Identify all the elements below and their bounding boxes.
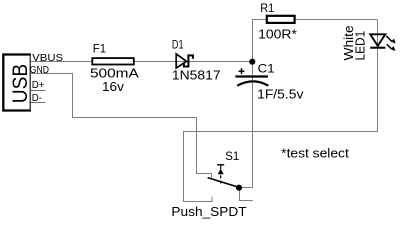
svg-text:500mA: 500mA xyxy=(90,66,139,80)
capacitor C1 curved plate xyxy=(237,81,268,85)
switch S1 plunger stem xyxy=(220,165,222,169)
capacitor C1 top plate xyxy=(235,75,268,77)
switch S1 plunger T-bar xyxy=(217,164,224,166)
svg-text:C1: C1 xyxy=(258,63,275,75)
svg-text:1F/5.5v: 1F/5.5v xyxy=(257,88,304,102)
wire GND net: stub, down, across, down to switch pole contact xyxy=(31,74,212,178)
LED1 emission arrow upper xyxy=(386,36,396,44)
svg-text:GND: GND xyxy=(30,64,50,76)
LED1 triangle xyxy=(370,34,385,46)
svg-text:Push_SPDT: Push_SPDT xyxy=(171,205,246,219)
wire VBUS rail from USB to node xyxy=(31,61,253,63)
svg-text:D1: D1 xyxy=(172,40,184,52)
wire C1 / switch vertical xyxy=(252,62,254,188)
diode D1 schottky cathode bar xyxy=(184,55,193,66)
svg-text:D-: D- xyxy=(32,92,43,104)
svg-text:S1: S1 xyxy=(225,151,239,163)
switch S1 plunger dashed link xyxy=(220,175,222,183)
capacitor C1 plus sign xyxy=(239,68,245,74)
wire lower-right throw stub xyxy=(240,190,253,201)
switch S1 throw contact dot xyxy=(236,185,242,191)
svg-text:F1: F1 xyxy=(93,44,106,56)
wire R1 top rail from node corner to LED corner xyxy=(253,20,378,62)
wire D- stub xyxy=(31,102,46,104)
wire switch throw to vertical xyxy=(239,187,253,189)
resistor R1 body xyxy=(267,16,295,23)
svg-text:16v: 16v xyxy=(102,80,125,94)
LED1 emission arrow lower xyxy=(387,44,396,51)
svg-text:*test select: *test select xyxy=(281,146,349,160)
svg-text:1N5817: 1N5817 xyxy=(172,69,221,83)
wire LED cathode drop, bottom return to lower-left throw stub xyxy=(184,20,378,202)
svg-text:USB: USB xyxy=(8,64,32,103)
svg-text:LED1: LED1 xyxy=(353,31,367,61)
switch S1 lever xyxy=(208,178,239,188)
wire D+ stub xyxy=(31,90,46,92)
node junction dot at VBUS/C1/R1 xyxy=(249,59,255,65)
fuse F1 body xyxy=(92,58,134,64)
svg-text:VBUS: VBUS xyxy=(32,52,63,64)
svg-text:100R*: 100R* xyxy=(258,27,297,41)
switch S1 plunger arrow xyxy=(218,169,224,175)
svg-text:R1: R1 xyxy=(260,3,274,15)
USB connector body xyxy=(3,55,31,111)
diode D1 triangle xyxy=(176,54,186,68)
LED1 cathode bar xyxy=(370,47,385,49)
svg-text:D+: D+ xyxy=(32,79,45,91)
